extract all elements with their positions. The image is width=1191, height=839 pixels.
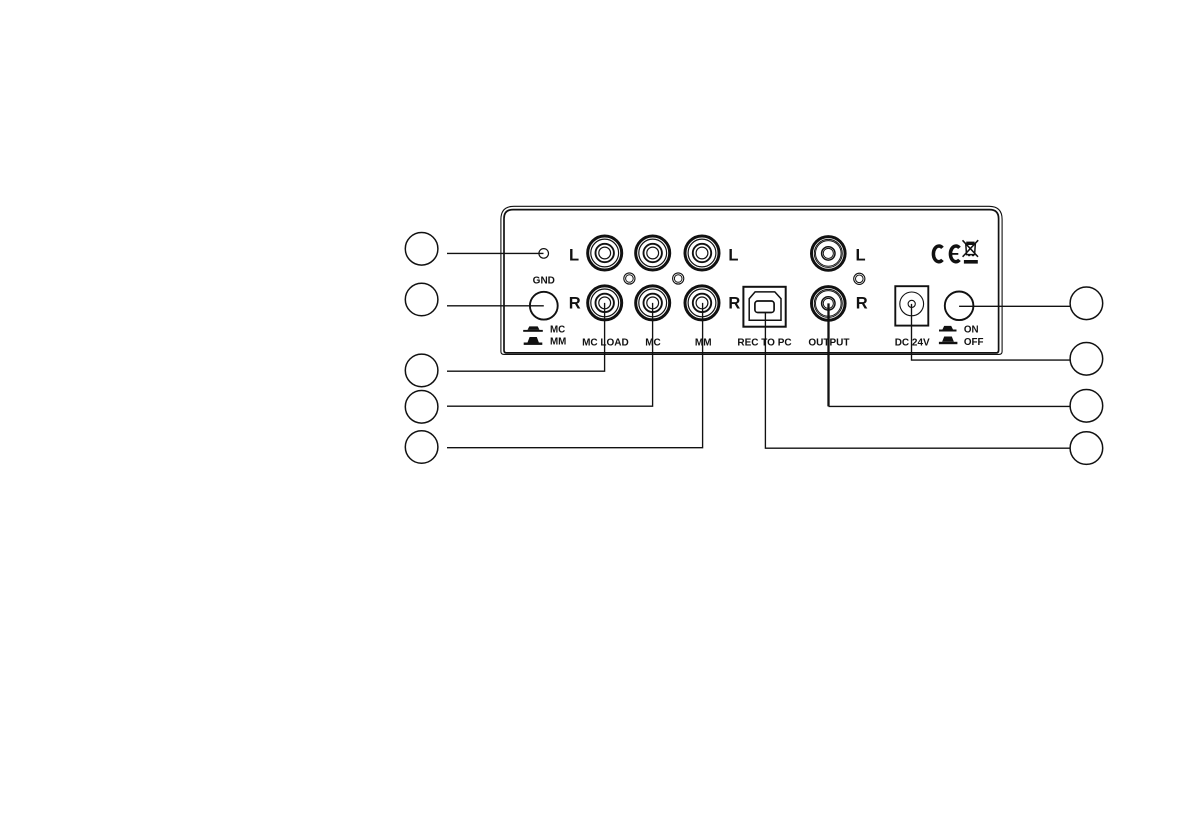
callout circle R4: [1070, 432, 1103, 465]
label L output: [856, 246, 866, 264]
panel outline outer: [501, 206, 1002, 354]
wire: callout 2 to GND terminal: [447, 305, 544, 307]
OFF switch-position icon: [939, 337, 958, 345]
callout circle L1: [405, 233, 438, 266]
USB port REC TO PC: [743, 287, 785, 327]
callout circle L2: [405, 283, 438, 316]
label DC 24V: [895, 337, 930, 348]
wire: callout 5 to MM R jack: [447, 303, 703, 448]
screw hole 2: [673, 273, 684, 284]
RCA jack MC R: [636, 286, 670, 320]
svg-text:L: L: [856, 246, 866, 264]
RCA jack OUTPUT L: [812, 237, 846, 271]
svg-text:MM: MM: [550, 337, 566, 348]
svg-text:R: R: [856, 294, 868, 312]
panel outline inner: [504, 210, 999, 353]
power switch: [945, 292, 974, 321]
wire: USB to callout R4: [765, 313, 1070, 448]
wire: callout 3 to MC LOAD R jack: [447, 303, 605, 371]
svg-text:MC LOAD: MC LOAD: [582, 337, 629, 348]
label MM: [695, 337, 712, 348]
RCA jack MC L: [636, 236, 670, 270]
svg-text:ON: ON: [964, 325, 979, 336]
svg-text:REC TO PC: REC TO PC: [737, 337, 791, 348]
CE mark: [933, 246, 959, 262]
callout circle R2: [1070, 343, 1103, 376]
svg-text:DC 24V: DC 24V: [895, 337, 930, 348]
label R output: [856, 294, 868, 312]
label L phono inputs left: [569, 246, 579, 264]
label R phono inputs right: [728, 294, 740, 312]
label R phono inputs left: [569, 294, 581, 312]
svg-text:R: R: [569, 294, 581, 312]
label ON: [964, 325, 979, 336]
GND label: [533, 275, 555, 286]
svg-text:MC: MC: [550, 325, 565, 336]
label MC LOAD: [582, 337, 629, 348]
callout circle L3: [405, 354, 438, 387]
svg-text:OFF: OFF: [964, 337, 984, 348]
label MC (switch): [550, 325, 565, 336]
callout circle R3: [1070, 390, 1103, 423]
svg-text:R: R: [728, 294, 740, 312]
DC input jack: [895, 286, 928, 325]
callout circle L4: [405, 391, 438, 424]
MC switch-position icon: [523, 326, 543, 331]
svg-text:L: L: [569, 246, 579, 264]
screw hole 3: [854, 273, 865, 284]
RCA jack OUTPUT R: [812, 287, 846, 321]
wire: callout 1 to GND hole: [447, 252, 544, 254]
RCA jack MC LOAD L: [588, 236, 622, 270]
ON switch-position icon: [939, 326, 957, 332]
WEEE symbol (crossed-out wheelie bin): [963, 240, 979, 263]
RCA jack MM R: [685, 286, 719, 320]
RCA jack MC LOAD R: [588, 286, 622, 320]
RCA jack MM L: [685, 236, 719, 270]
wire: callout 4 to MC R jack: [447, 303, 653, 406]
label OFF: [964, 337, 984, 348]
MM switch-position icon: [524, 337, 543, 345]
wire: OUTPUT R jack to callout R3 (thick drop): [829, 303, 1071, 406]
label MM (switch): [550, 337, 566, 348]
label MC: [645, 337, 661, 348]
GND terminal: [530, 292, 558, 320]
callout circle L5: [405, 431, 438, 464]
GND hole: [539, 249, 549, 259]
screw hole 1: [624, 273, 635, 284]
label OUTPUT: [808, 337, 849, 348]
svg-text:GND: GND: [533, 275, 555, 286]
wire: power switch to callout R1: [959, 305, 1070, 307]
svg-text:L: L: [728, 246, 738, 264]
wire: DC jack to callout R2: [912, 304, 1071, 360]
label L phono inputs right: [728, 246, 738, 264]
label REC TO PC: [737, 337, 791, 348]
callout circle R1: [1070, 287, 1103, 320]
